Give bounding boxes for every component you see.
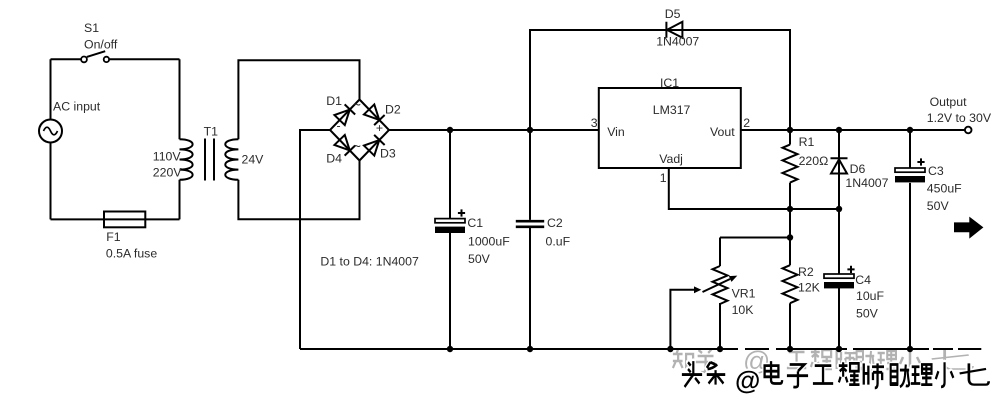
white halo gaps cut into ground rail by watermark: [738, 346, 958, 352]
svg-text:Vout: Vout: [710, 125, 735, 139]
switch S1 right contact: [104, 57, 109, 62]
svg-text:+: +: [376, 121, 383, 135]
svg-text:S1: S1: [84, 21, 99, 35]
svg-text:D1: D1: [326, 94, 342, 108]
svg-text:50V: 50V: [927, 199, 950, 213]
junction: R1 bottom / Vadj node: [787, 206, 793, 212]
capacitor C2 plates: [516, 221, 544, 227]
svg-text:On/off: On/off: [84, 38, 118, 52]
VR1 wiper diagonal arrow: [703, 279, 731, 292]
wire bridge minus to ground: [300, 130, 330, 349]
svg-text:12K: 12K: [798, 281, 821, 295]
svg-text:@: @: [735, 365, 760, 395]
capacitor C4 plates: [824, 274, 854, 288]
svg-text:AC input: AC input: [53, 100, 101, 114]
switch S1 lever: [87, 51, 105, 57]
svg-text:1N4007: 1N4007: [845, 176, 888, 190]
output terminal: [965, 127, 972, 134]
svg-text:R1: R1: [799, 135, 815, 149]
svg-text:~: ~: [353, 139, 361, 154]
junction: VR1 top branch / R2 top: [787, 234, 793, 240]
svg-text:50V: 50V: [468, 252, 491, 266]
junction: D5 right / R1 top / Vout rail: [787, 127, 793, 133]
svg-text:10uF: 10uF: [856, 289, 885, 303]
svg-text:Vin: Vin: [607, 125, 625, 139]
wire VR1 top branch: [720, 238, 790, 350]
AC source: [39, 120, 62, 143]
transformer T1 secondary coil: [225, 139, 238, 180]
bridge diodes: [334, 104, 384, 155]
svg-text:D6: D6: [850, 162, 866, 176]
wire Vout rail to output: [741, 129, 965, 131]
svg-text:3: 3: [591, 116, 598, 130]
svg-text:1.2V to 30V: 1.2V to 30V: [927, 111, 992, 125]
junction: C1 top / +V rail: [447, 127, 453, 133]
svg-text:110V: 110V: [153, 150, 182, 164]
junction: C4 bottom / ground rail: [836, 346, 842, 352]
svg-text:Vadj: Vadj: [659, 152, 683, 166]
svg-text:-: -: [336, 119, 340, 133]
junction: C2 top / D5 left / +V rail: [527, 127, 533, 133]
svg-text:450uF: 450uF: [927, 182, 962, 196]
black watermark 头条 @电子工程师助理小七 (white halo over wires): [682, 361, 989, 388]
svg-text:LM317: LM317: [653, 103, 691, 117]
IC1 box: [599, 88, 741, 168]
junction: D6 anode / C4 top / Vadj node: [836, 206, 842, 212]
resistor R1: [783, 145, 798, 183]
VR1 wiper arrowhead horizontal: [694, 286, 701, 293]
svg-text:2: 2: [743, 116, 750, 130]
bridge diamond wires: [330, 100, 389, 161]
wire D6/C4 column: [838, 130, 840, 349]
diode D1: [334, 104, 355, 125]
capacitor C1 plates: [435, 219, 465, 233]
polarity plus mark C3: [917, 158, 924, 165]
junction: C3 top / Vout rail: [907, 127, 913, 133]
wire VR1 wiper: [670, 290, 694, 349]
svg-text:24V: 24V: [242, 153, 265, 167]
wire secondary loop: [238, 60, 359, 219]
svg-text:D4: D4: [326, 152, 342, 166]
svg-text:D2: D2: [385, 103, 401, 117]
switch S1 left contact: [81, 57, 87, 63]
diode D2: [364, 104, 385, 125]
junction: VR1 wiper / ground rail: [667, 346, 673, 352]
svg-text:D1 to D4: 1N4007: D1 to D4: 1N4007: [320, 255, 419, 269]
svg-text:0.5A fuse: 0.5A fuse: [106, 247, 157, 261]
capacitor C3 plates: [895, 168, 925, 182]
transformer T1 primary coil: [180, 139, 193, 180]
wire primary bottom: [51, 218, 180, 220]
svg-text:220V: 220V: [153, 166, 183, 180]
junction: C2 bottom / ground rail: [527, 346, 533, 352]
svg-text:10K: 10K: [732, 303, 755, 317]
svg-text:VR1: VR1: [732, 287, 756, 301]
svg-text:1N4007: 1N4007: [656, 35, 699, 49]
svg-text:C3: C3: [928, 164, 944, 178]
svg-text:Output: Output: [930, 95, 967, 109]
junction: C3 bottom / ground rail: [907, 346, 913, 352]
polarity plus mark C4: [847, 266, 854, 273]
svg-text:~: ~: [353, 98, 361, 113]
wire primary right: [179, 59, 181, 219]
wire primary loop top: [51, 58, 180, 60]
VR1 wiper arrowhead diagonal: [729, 276, 738, 282]
wire primary left: [50, 59, 52, 219]
junction: VR1 bottom / ground rail: [717, 346, 723, 352]
junction: D6 cathode / Vout rail: [836, 127, 842, 133]
svg-text:0.uF: 0.uF: [546, 235, 571, 249]
transformer T1 core: [205, 139, 214, 181]
diode D6: [831, 158, 848, 173]
wire ground rail: [300, 348, 981, 350]
svg-text:C4: C4: [855, 273, 871, 287]
wire C1 column: [449, 130, 451, 349]
polarity plus mark C1: [458, 209, 465, 216]
svg-text:IC1: IC1: [660, 76, 679, 90]
wire Vadj pin down and across: [669, 168, 839, 209]
svg-text:R2: R2: [798, 265, 814, 279]
diode D3: [364, 135, 385, 156]
junction: C1 bottom / ground rail: [447, 346, 453, 352]
wire C2 column: [529, 130, 531, 349]
wire D5 loop: [530, 30, 790, 130]
svg-text:220Ω: 220Ω: [799, 154, 829, 168]
svg-text:D5: D5: [665, 7, 681, 21]
wire plus rail to IC Vin: [389, 129, 599, 131]
svg-text:F1: F1: [106, 230, 121, 244]
wire C3 column: [909, 130, 911, 349]
svg-text:50V: 50V: [856, 307, 879, 321]
svg-text:1: 1: [660, 171, 667, 185]
diode D5: [666, 22, 682, 38]
junction: R2 bottom / ground rail: [787, 346, 793, 352]
big black arrow: [954, 217, 983, 239]
svg-text:1000uF: 1000uF: [468, 235, 510, 249]
wire R1 column: [789, 130, 791, 349]
diode D4: [334, 135, 355, 156]
svg-text:D3: D3: [380, 147, 396, 161]
fuse F1: [104, 212, 145, 228]
svg-text:C1: C1: [467, 216, 483, 230]
potentiometer VR1 zigzag: [713, 266, 728, 304]
svg-text:T1: T1: [204, 125, 219, 139]
gray watermark 知乎 @工程师助理小七 (drawn under wires): [673, 349, 973, 372]
resistor R2: [783, 265, 798, 303]
svg-text:C2: C2: [547, 216, 563, 230]
